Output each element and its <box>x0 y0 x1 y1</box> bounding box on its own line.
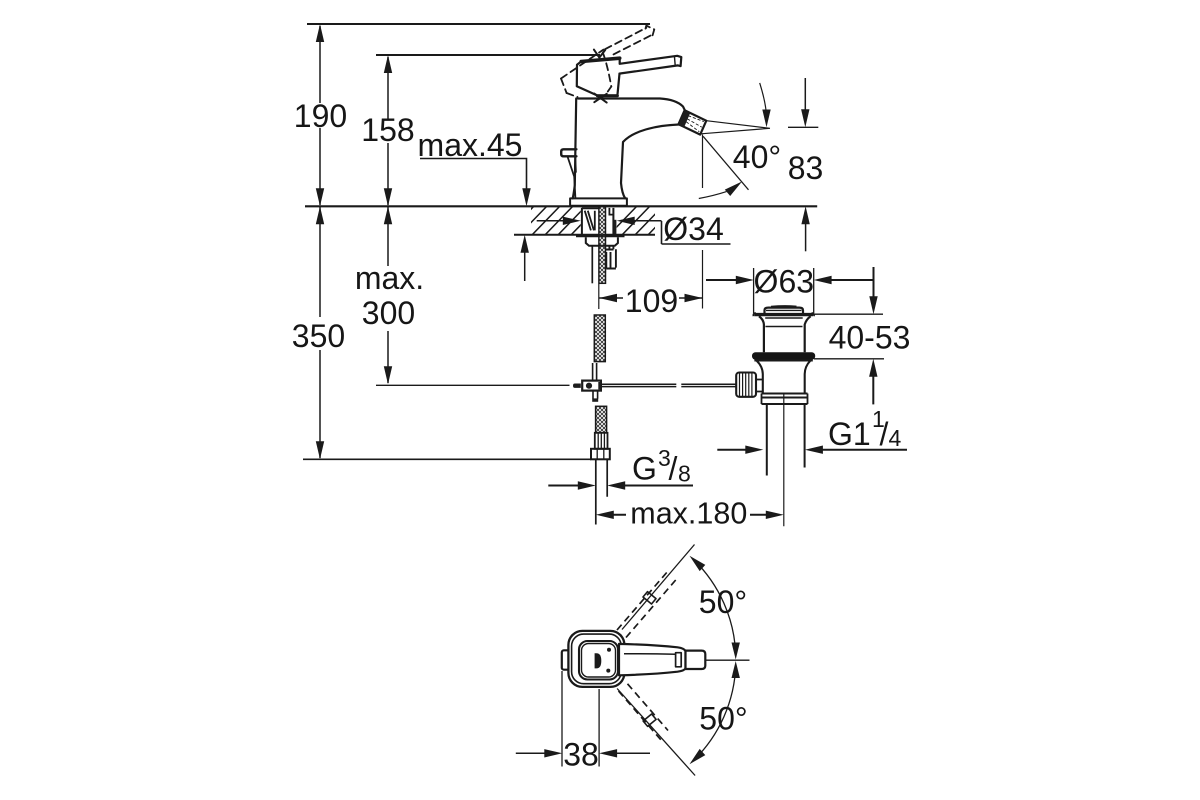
svg-text:/: / <box>669 451 678 487</box>
dimension max180 arrows <box>596 511 784 519</box>
waste centerline <box>783 393 785 527</box>
dimension Ø34 arrows at deck <box>537 220 565 222</box>
top view lever inner rect <box>676 653 682 667</box>
SECTION: below deck <box>573 207 625 525</box>
braided hose middle strip <box>594 315 605 362</box>
aerator spray fan dashes <box>687 116 704 132</box>
popup rod slot top right <box>609 208 613 215</box>
handle lever solid <box>620 56 682 74</box>
svg-text:50°: 50° <box>699 701 747 737</box>
dimension G1 1/4 arrows <box>717 449 747 451</box>
dimension max180 line <box>612 514 767 516</box>
seal ring (black) <box>752 352 815 360</box>
vertical popup rod above clevis <box>593 363 597 380</box>
dimension 350 arrows <box>316 206 324 459</box>
40deg lower arc <box>699 192 727 199</box>
max300 bottom reference / popup rod line <box>376 384 570 386</box>
handle pivot cross mark <box>594 94 606 103</box>
dimension 109 arrows <box>599 294 703 302</box>
SECTION: waste assembly <box>548 267 907 526</box>
handle knob top thick edge <box>581 58 620 61</box>
max45 arrow up under deck <box>524 252 526 281</box>
lower body <box>757 361 763 394</box>
svg-text:8: 8 <box>678 461 691 487</box>
dimension 40-53 arrows <box>873 267 875 297</box>
50deg lower thin line <box>617 689 695 776</box>
40deg steep leg <box>703 136 748 190</box>
popup rod tab on body <box>561 149 576 156</box>
dimension Ø63 arrows <box>706 279 739 281</box>
locknut flange <box>576 235 625 238</box>
svg-text:40-53: 40-53 <box>829 320 911 356</box>
dashed lever lower position <box>619 684 669 740</box>
50deg upper thin line <box>622 545 695 630</box>
base plinth <box>570 198 627 205</box>
extension line spray axis vertical <box>702 135 704 309</box>
SECTION: texts <box>292 98 911 773</box>
dashed lever (raised position) <box>605 26 654 55</box>
dashed lever lower cap <box>643 714 656 726</box>
deck hatching left <box>505 205 600 236</box>
coupling ring <box>762 394 808 405</box>
shank top edge <box>582 207 599 209</box>
svg-text:38: 38 <box>563 737 599 773</box>
braided hose upper strip <box>599 207 606 284</box>
SECTION: top view <box>516 545 750 776</box>
40deg upper arc arrowhead <box>762 110 770 128</box>
clevis screw head (dark) <box>586 383 592 389</box>
50deg lower arc <box>694 665 736 761</box>
40deg lower arc arrowhead <box>725 182 742 197</box>
popup rod through deck (dark) <box>614 220 616 235</box>
svg-text:max.180: max.180 <box>630 497 747 531</box>
lever cap separation line <box>674 57 677 65</box>
G3/8 ribbed connector <box>595 433 608 449</box>
svg-text:158: 158 <box>361 112 414 148</box>
knurled knob <box>736 373 756 397</box>
top reference line (lever max height) <box>307 23 650 25</box>
G3/8 nut <box>591 449 610 460</box>
deck hatching right <box>608 205 677 236</box>
tailpipe <box>767 404 805 476</box>
dimension 190 line <box>319 26 321 205</box>
top view knob face outline <box>579 641 618 680</box>
dimension max300 arrows <box>384 206 392 384</box>
max45 underline and leader <box>420 159 527 191</box>
dimension 40-53 reference lines <box>813 314 884 359</box>
max45 arrow down onto deck <box>522 188 530 206</box>
top view lever tip <box>686 651 706 669</box>
dimension 158 line <box>387 57 389 205</box>
stream envelope lines <box>701 121 770 134</box>
dimension 158 arrows <box>384 55 392 206</box>
svg-text:300: 300 <box>362 295 415 331</box>
cone washer wedge <box>585 211 595 231</box>
svg-text:50°: 50° <box>699 584 747 620</box>
dashed handle knob (raised position) <box>561 50 611 97</box>
50deg lower arc arrowheads <box>690 749 706 764</box>
dimension 38 extension lines <box>562 671 599 767</box>
40deg upper arc shaft <box>760 83 767 112</box>
popup rod elbow below nut <box>606 246 616 269</box>
dashed lever upper cap <box>643 592 656 604</box>
handle knob solid <box>577 61 620 95</box>
top view knob face outline 2 <box>582 644 616 678</box>
dimension 350 line <box>319 207 321 458</box>
svg-text:Ø63: Ø63 <box>754 264 814 300</box>
dimension Ø63 extension lines <box>754 268 814 313</box>
aerator seal band (dark) <box>679 110 691 127</box>
threaded shank walls <box>582 208 614 234</box>
SECTION: dimensions left <box>316 24 819 459</box>
trim inner lines <box>765 318 803 327</box>
horizontal actuating rod <box>601 384 736 386</box>
braided hose lower strip <box>596 406 607 433</box>
knob stem <box>756 380 763 392</box>
dimension 109 line <box>599 297 703 299</box>
svg-text:83: 83 <box>788 150 824 186</box>
svg-text:/: / <box>880 416 889 452</box>
supply pipe below nut <box>596 459 607 524</box>
svg-text:40°: 40° <box>733 139 781 175</box>
trim neck sides <box>759 316 764 352</box>
dimension max300 line <box>387 207 389 383</box>
svg-text:109: 109 <box>625 283 678 319</box>
locknut body <box>586 237 618 246</box>
SECTION: reference lines <box>303 24 817 459</box>
svg-text:4: 4 <box>889 425 902 451</box>
top view knob outer outline <box>568 631 624 687</box>
knob face dots <box>607 648 611 652</box>
dimension 83 top arrow <box>804 78 806 112</box>
top view lever inner line <box>624 653 676 656</box>
clevis pin below <box>593 391 598 399</box>
svg-text:350: 350 <box>292 318 345 354</box>
SECTION: faucet side view <box>561 26 706 206</box>
clevis pin foot (dark) <box>592 398 598 401</box>
svg-text:max.: max. <box>355 260 424 296</box>
Ø34 label box <box>662 221 731 244</box>
clevis block <box>582 381 601 391</box>
svg-text:G1: G1 <box>828 416 871 452</box>
svg-text:Ø34: Ø34 <box>663 211 723 247</box>
popup rod diagonal into body <box>568 157 576 199</box>
top view lever arm <box>619 644 686 675</box>
mounting deck bottom line <box>514 234 655 236</box>
popup plug cap <box>765 308 804 313</box>
second hose line behind <box>591 246 593 283</box>
clevis left rod end (dark) <box>573 384 581 388</box>
dimension 83 top tick <box>788 126 818 128</box>
faucet body outline <box>578 99 685 111</box>
knob D mark (dark) <box>595 653 602 668</box>
top view centerline <box>706 659 750 661</box>
top view left tab <box>562 650 575 669</box>
dashed knob corner notch <box>594 50 605 58</box>
top view knob outline 2 <box>572 634 622 684</box>
dimension G3/8 arrows <box>548 485 579 487</box>
dimension 190 arrows <box>316 24 324 206</box>
svg-text:G: G <box>632 451 657 487</box>
reference line 158 level <box>376 54 600 56</box>
dimension 38 line and arrows <box>516 752 650 754</box>
ring lower lip <box>754 359 812 361</box>
handle knob bottom thick edge <box>597 94 617 97</box>
50deg upper arc arrowheads <box>690 556 706 571</box>
svg-text:190: 190 <box>294 98 347 134</box>
clevis right bar (dark) <box>598 382 601 389</box>
aerator housing <box>679 110 707 134</box>
mounting deck top line <box>305 205 817 207</box>
waste trim flange <box>754 313 813 316</box>
50deg upper arc <box>694 560 736 656</box>
dimension 83 bottom arrow <box>805 222 807 251</box>
bottom reference line (350 level) <box>303 458 591 460</box>
extension line hose centerline <box>598 284 600 309</box>
svg-text:max.45: max.45 <box>418 127 523 163</box>
dashed lever upper position <box>617 571 677 638</box>
